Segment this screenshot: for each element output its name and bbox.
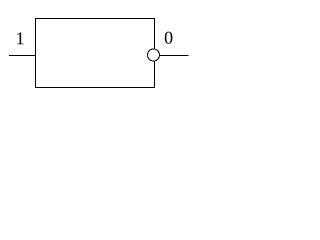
output wire	[160, 55, 189, 57]
input value label 1	[17, 32, 23, 44]
input wire	[9, 55, 36, 57]
inverter gate U1 body	[36, 19, 155, 88]
inversion bubble	[148, 49, 160, 61]
output value label 0	[165, 32, 173, 44]
